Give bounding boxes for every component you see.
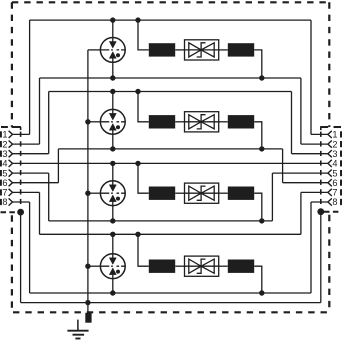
terminal 3 chevron <box>9 150 13 157</box>
wire riser terminal 7 down to line-a rail 4 <box>39 192 41 234</box>
resistor R3b <box>228 187 254 200</box>
PE equipotential rail <box>21 302 321 304</box>
junction line-b rail 3 / gdt <box>110 218 115 223</box>
junction line-a rail 3 / chain <box>135 161 140 166</box>
resistor R2b <box>228 115 254 128</box>
svg-text:5: 5 <box>332 168 337 178</box>
resistor R1b <box>228 43 254 56</box>
svg-text:7: 7 <box>332 188 337 198</box>
line-a rail channel 2 <box>49 91 292 93</box>
terminal block border bar left 6 <box>0 180 2 186</box>
wire terminal 7 to riser <box>13 191 40 193</box>
wire suppressor diode to resistor R3b <box>219 192 228 194</box>
line-b rail channel 4 <box>30 292 311 294</box>
wire terminal 2' stub <box>301 143 328 145</box>
junction ground bus / gdt F4 centre electrode <box>85 264 90 269</box>
wire riser terminal 6 up to line-b rail 2 <box>57 149 59 183</box>
wire shield node left to PE rail <box>20 212 22 303</box>
junction line-b rail 2 / chain <box>259 146 264 151</box>
wire suppressor diode to resistor R4b <box>219 265 228 267</box>
wire terminal 2 to riser <box>13 143 40 145</box>
wire line-a rail to gas discharge tube F1 top electrode <box>112 20 114 42</box>
wire terminal 8 to riser <box>13 201 30 203</box>
terminal 1' chevron <box>328 131 332 138</box>
terminal 6' chevron <box>328 179 332 186</box>
terminal 4 chevron <box>9 160 13 167</box>
terminal block border bar right 3 <box>340 151 342 157</box>
wire riser line-a rail 4 up to terminal 7' <box>300 192 302 234</box>
svg-text:8: 8 <box>2 197 7 207</box>
wire riser terminal 1 up to line-a rail 1 <box>29 20 31 134</box>
terminal block border bar right 8 <box>340 199 342 205</box>
terminal block border bar right 4 <box>340 160 342 166</box>
svg-text:6: 6 <box>2 178 7 188</box>
svg-text:1: 1 <box>2 130 7 140</box>
terminal block border bar left 7 <box>0 189 2 195</box>
bidirectional suppressor diode V4 <box>185 256 219 276</box>
enclosure border top <box>12 1 329 3</box>
wire line-a rail to gas discharge tube F2 top electrode <box>112 92 114 114</box>
wire terminal 8' stub <box>311 201 328 203</box>
junction line-a rail 1 / chain <box>135 17 140 22</box>
terminal 5' chevron <box>328 170 332 177</box>
line-b rail channel 1 <box>40 77 301 79</box>
enclosure border left upper <box>11 2 13 127</box>
wire resistor R3b to line-b rail <box>254 193 262 221</box>
wire suppressor diode to resistor R2b <box>219 121 228 123</box>
junction line-b rail 4 / chain <box>259 290 264 295</box>
svg-text:7: 7 <box>2 188 7 198</box>
junction line-a rail 2 / chain <box>135 89 140 94</box>
terminal block border bar left 4 <box>0 160 2 166</box>
resistor R2a <box>149 115 175 128</box>
enclosure border right lower <box>328 212 330 312</box>
junction PE rail / ground bus <box>85 300 90 305</box>
wire gas discharge tube F1 bottom electrode to line-b rail <box>112 58 114 78</box>
wire terminal 5 to riser <box>13 172 49 174</box>
wire line-a rail to gas discharge tube F3 top electrode <box>112 163 114 185</box>
terminal 3' chevron <box>328 150 332 157</box>
terminal block jog top left dash 1 <box>1 126 8 128</box>
terminal 7' chevron <box>328 189 332 196</box>
wire resistor R4a to suppressor diode <box>175 265 184 267</box>
wire riser terminal 5 down to line-b rail 3 <box>48 173 50 221</box>
resistor R4a <box>149 260 175 273</box>
terminal block border bar right 1 <box>340 131 342 137</box>
wire riser line-b rail 2 down to terminal 6' <box>282 149 284 183</box>
wire terminal 3 to riser <box>13 153 49 155</box>
shield earthing hook right <box>320 127 322 130</box>
wire gas discharge tube F4 bottom electrode to line-b rail <box>112 274 114 293</box>
terminal 2 chevron <box>9 141 13 148</box>
terminal 1 chevron <box>9 131 13 138</box>
terminal block border bar left 3 <box>0 151 2 157</box>
resistor R1a <box>149 43 175 56</box>
terminal block jog top right dash 2 <box>334 126 342 128</box>
enclosure border bottom <box>13 311 329 313</box>
junction line-a rail 3 / gdt <box>110 161 115 166</box>
wire terminal 6' stub <box>283 182 328 184</box>
terminal 5 chevron <box>9 170 13 177</box>
line-a rail channel 3 (terminal 4 to 4') <box>13 162 328 164</box>
wire terminal 1 to riser <box>13 133 30 135</box>
terminal block border bar right 5 <box>340 170 342 176</box>
wire resistor R2a to suppressor diode <box>175 121 184 123</box>
terminal block border bar left 2 <box>0 141 2 147</box>
wire gas discharge tube F3 bottom electrode to line-b rail <box>112 201 114 221</box>
terminal block jog bottom left (to shield node) <box>1 211 18 213</box>
shield earthing hook left <box>20 127 22 130</box>
wire line-a rail to protection chain 3 <box>138 163 149 193</box>
junction line-a rail 4 / gdt <box>110 232 115 237</box>
resistor R4b <box>228 260 254 273</box>
junction line-b rail 4 / gdt <box>110 290 115 295</box>
earth terminal bar <box>85 313 91 323</box>
shield earth node right <box>317 208 324 215</box>
terminal 6 chevron <box>9 179 13 186</box>
terminal 2' chevron <box>328 141 332 148</box>
terminal 8 chevron <box>9 198 13 205</box>
bidirectional suppressor diode V3 <box>185 183 219 203</box>
svg-text:2: 2 <box>2 139 7 149</box>
svg-text:3: 3 <box>2 149 7 159</box>
junction line-a rail 4 / chain <box>135 232 140 237</box>
wire line-a rail to protection chain 4 <box>138 234 149 266</box>
wire riser terminal 8 down to line-b rail 4 <box>29 202 31 293</box>
wire riser line-b rail 3 up to terminal 5' <box>271 173 273 221</box>
wire riser line-a rail 2 down to terminal 3' <box>291 92 293 154</box>
wire resistor R1b to line-b rail <box>254 50 262 78</box>
wire suppressor diode to resistor R1b <box>219 49 228 51</box>
terminal block border bar left 8 <box>0 199 2 205</box>
terminal block jog top left dash 2 <box>12 126 21 128</box>
svg-text:5: 5 <box>2 168 7 178</box>
junction line-b rail 1 / gdt <box>110 75 115 80</box>
junction line-b rail 1 / chain <box>259 75 264 80</box>
wire terminal 7' stub <box>301 191 328 193</box>
svg-text:1: 1 <box>332 130 337 140</box>
gas discharge tube F1 (3-electrode arrester) <box>88 38 125 63</box>
wire riser line-a rail 1 down to terminal 1' <box>310 20 312 134</box>
terminal 8' chevron <box>328 198 332 205</box>
gas discharge tube F3 (3-electrode arrester) <box>88 181 125 206</box>
wire shield node right to PE rail <box>320 212 322 303</box>
ground bus (gdt centre electrodes to PE) <box>87 50 89 303</box>
enclosure border left lower <box>11 212 13 312</box>
terminal 7 chevron <box>9 189 13 196</box>
terminal block border bar right 7 <box>340 189 342 195</box>
indirect shield earthing dashed line right <box>320 132 322 208</box>
line-b rail channel 2 <box>58 148 282 150</box>
svg-text:4: 4 <box>2 159 7 169</box>
terminal block border bar right 2 <box>340 141 342 147</box>
line-a rail channel 4 <box>40 233 301 235</box>
junction line-a rail 1 / gdt <box>110 17 115 22</box>
svg-text:8: 8 <box>332 197 337 207</box>
terminal block jog bottom right (from shield node) <box>324 211 341 213</box>
terminal block border bar right 6 <box>340 180 342 186</box>
svg-text:2: 2 <box>332 139 337 149</box>
junction line-a rail 2 / gdt <box>110 89 115 94</box>
enclosure border right upper <box>328 2 330 127</box>
wire riser line-b rail 4 up to terminal 8' <box>310 202 312 293</box>
wire resistor R3a to suppressor diode <box>175 192 184 194</box>
terminal block border bar left 5 <box>0 170 2 176</box>
wire line-a rail to protection chain 2 <box>138 92 149 122</box>
indirect shield earthing dashed line left <box>20 132 22 208</box>
line-b rail channel 3 <box>49 220 273 222</box>
wire terminal 5' stub <box>272 172 328 174</box>
bidirectional suppressor diode V2 <box>185 112 219 132</box>
svg-text:6: 6 <box>332 178 337 188</box>
ground (earth symbol) <box>67 320 88 339</box>
wire line-a rail to protection chain 1 <box>138 20 149 50</box>
wire riser line-b rail 1 down to terminal 2' <box>300 78 302 144</box>
wire line-a rail to gas discharge tube F4 top electrode <box>112 234 114 258</box>
wire riser terminal 2 up to line-b rail 1 <box>39 78 41 144</box>
terminal 4' chevron <box>328 160 332 167</box>
wire resistor R2b to line-b rail <box>254 122 262 149</box>
junction line-b rail 3 / chain <box>259 218 264 223</box>
terminal block border bar left 1 <box>0 131 2 137</box>
svg-text:3: 3 <box>332 149 337 159</box>
wire PE rail to earth terminal bar <box>87 303 89 313</box>
wire terminal 3' stub <box>292 153 328 155</box>
wire resistor R4b to line-b rail <box>254 266 262 293</box>
wire gas discharge tube F2 bottom electrode to line-b rail <box>112 130 114 149</box>
wire terminal 1' stub <box>311 133 328 135</box>
resistor R3a <box>149 187 175 200</box>
bidirectional suppressor diode V1 <box>185 40 219 60</box>
junction ground bus / gdt F3 centre electrode <box>85 191 90 196</box>
junction line-b rail 2 / gdt <box>110 146 115 151</box>
svg-text:4: 4 <box>332 159 337 169</box>
wire riser terminal 3 up to line-a rail 2 <box>48 92 50 154</box>
gas discharge tube F4 (3-electrode arrester) <box>88 254 125 279</box>
wire resistor R1a to suppressor diode <box>175 49 184 51</box>
junction ground bus / gdt F2 centre electrode <box>85 119 90 124</box>
wire terminal 6 to riser <box>13 182 59 184</box>
shield earth node left <box>17 209 24 216</box>
terminal block jog top right dash 1 <box>320 126 328 128</box>
line-a rail channel 1 <box>30 19 311 21</box>
gas discharge tube F2 (3-electrode arrester) <box>88 109 125 134</box>
